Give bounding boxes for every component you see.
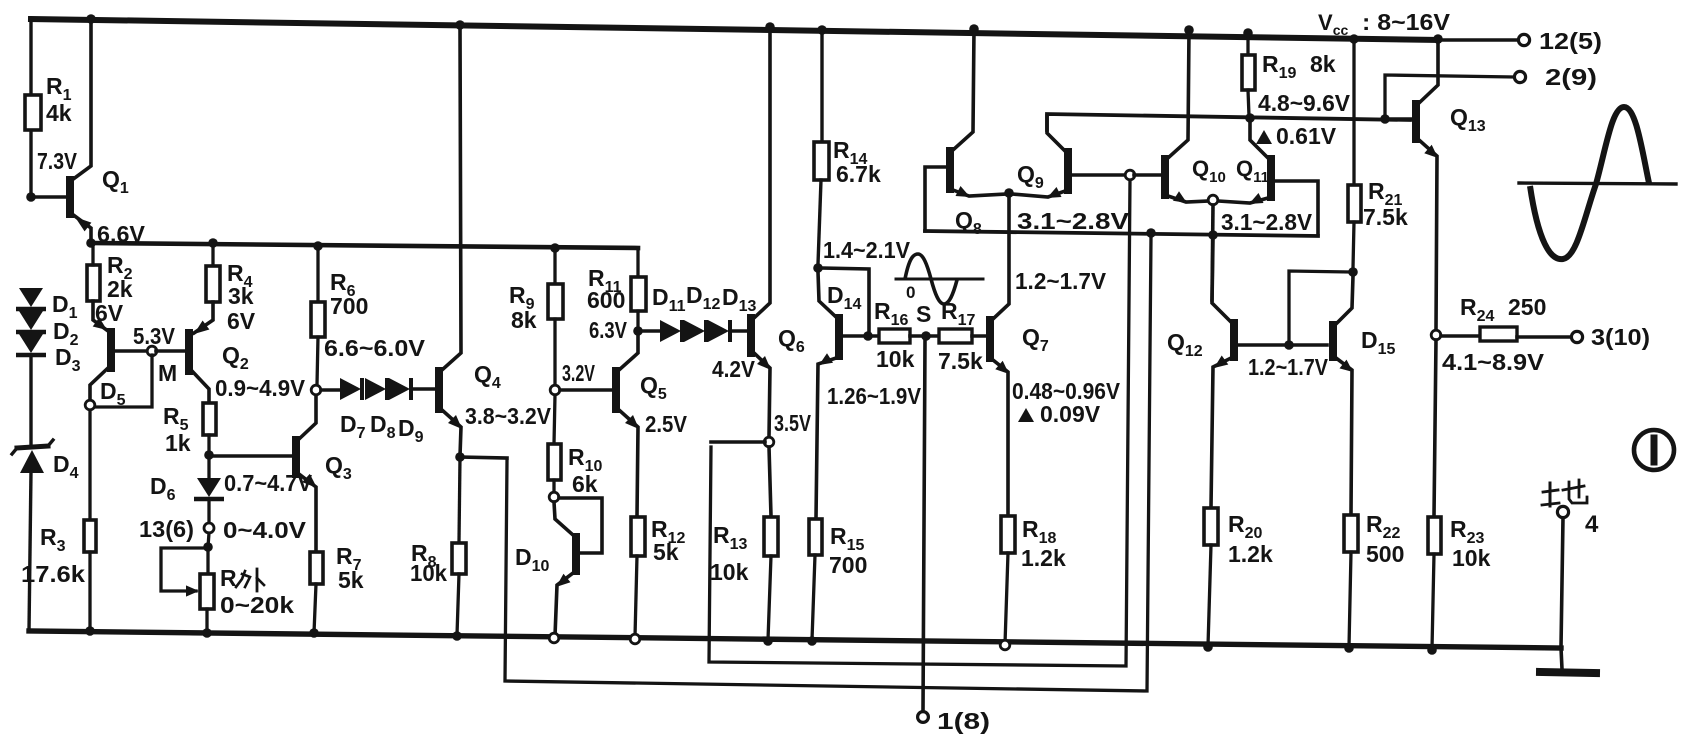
diode D8: [365, 378, 396, 442]
transistor Q9: [1012, 116, 1126, 198]
svg-text:6k: 6k: [572, 471, 598, 497]
node R9 top on 6.6V rail: [550, 243, 560, 253]
wire emitters to mirror bus / Q12 collector: [1212, 205, 1213, 300]
transistor Q5: [616, 335, 667, 516]
svg-text:3.1~2.8V: 3.1~2.8V: [1017, 208, 1130, 234]
wire 3.5V node to line A: [711, 442, 765, 447]
terminal 2(9): [1514, 64, 1597, 90]
wire mirror base bus (Q8 base to Q11 base): [925, 231, 1318, 236]
svg-text:0.09V: 0.09V: [1040, 401, 1101, 427]
node R19 bottom / Q11 collector on driver rail: [1245, 113, 1255, 123]
transistor Q12: [1167, 239, 1327, 507]
wire Q5 base: [560, 388, 612, 392]
wire R17 to Q7 base: [972, 334, 986, 338]
svg-text:1k: 1k: [165, 430, 191, 456]
node R5 bottom / Q3 base / D6: [204, 450, 214, 460]
node R10 bottom: [549, 492, 559, 502]
transistor Q11: [1218, 122, 1318, 233]
svg-text:2(9): 2(9): [1545, 64, 1597, 90]
svg-text:1.2k: 1.2k: [1228, 541, 1273, 567]
resistor R7: [310, 543, 364, 633]
node Q10 collector on Vcc rail: [1184, 25, 1194, 35]
svg-text:6V: 6V: [227, 308, 256, 334]
node Rext / ground rail: [202, 628, 212, 638]
terminal 13(6): [139, 516, 307, 543]
node R20 / ground rail: [1203, 642, 1213, 652]
transistor Q10: [1165, 30, 1226, 203]
node Q4 collector on top rail: [455, 20, 465, 30]
resistor R20: [1204, 508, 1273, 646]
svg-text:2k: 2k: [107, 276, 133, 302]
resistor R18: [1001, 516, 1066, 644]
wire pin13 node to Rext: [208, 533, 209, 547]
diode D3: [16, 334, 81, 375]
node 6.6V rail start: [86, 238, 96, 248]
svg-text:1(8): 1(8): [937, 708, 990, 734]
wire D3 to D4: [29, 355, 32, 447]
terminal 3(10): [1571, 324, 1650, 350]
resistor R24: [1441, 294, 1571, 341]
node mirror bus junction at Q12 column: [1208, 230, 1218, 240]
svg-text:8k: 8k: [511, 307, 537, 333]
resistor R3: [21, 409, 96, 631]
input sine symbol: [896, 254, 983, 304]
node output (Q13 emitter / R24): [1431, 330, 1441, 340]
node R14 top on Vcc rail: [817, 25, 827, 35]
wire base circle to Q10: [1134, 173, 1161, 177]
output sine waveform: [1519, 107, 1676, 259]
svg-text:7.5k: 7.5k: [1363, 204, 1408, 230]
node R15 / ground rail: [807, 636, 817, 646]
svg-text:4.2V: 4.2V: [712, 356, 756, 382]
node Rext top junction: [203, 542, 213, 552]
potentiometer Rext (external 0~20k): [200, 547, 294, 633]
resistor R16: [874, 298, 915, 372]
resistor R14: [814, 30, 881, 264]
wire bottom ground rail: [29, 631, 1561, 648]
transistor Q3: [296, 394, 352, 551]
node Q8 collector on Vcc rail: [969, 24, 979, 34]
svg-text:0~20k: 0~20k: [220, 592, 294, 618]
diode D12: [684, 282, 721, 342]
wire driver rail (Q9 collector to Q13 base): [1047, 114, 1410, 130]
node M (5.3V): [133, 323, 177, 386]
wire S to pin 1(8): [923, 340, 925, 711]
node R6 top on 6.6V rail: [313, 241, 323, 251]
svg-text:5.3V: 5.3V: [133, 323, 176, 349]
node pin2 drop on driver rail: [1380, 114, 1390, 124]
node S: [916, 301, 931, 341]
transistor Q6: [751, 27, 805, 437]
transistor Q7: [990, 197, 1049, 515]
node 3.5V (Q6 emitter): [764, 410, 811, 447]
svg-text:5k: 5k: [338, 567, 364, 593]
wire 6.3V node to D11: [642, 329, 660, 333]
wire base junction up to R21/D15 collector: [1289, 271, 1349, 341]
node top rail / Q1 collector: [86, 14, 96, 24]
resistor R12: [631, 516, 686, 637]
svg-text:1.2~1.7V: 1.2~1.7V: [1248, 354, 1329, 380]
node R4 top on 6.6V rail: [208, 238, 218, 248]
wire node to D7: [321, 388, 340, 392]
wire driver rail to pin 2(9): [1385, 75, 1513, 115]
terminal 1(8): [918, 708, 990, 734]
svg-text:4.1~8.9V: 4.1~8.9V: [1442, 349, 1545, 375]
svg-text:3.2V: 3.2V: [562, 360, 595, 386]
node R13 / ground rail: [763, 636, 773, 646]
diode D13: [708, 284, 757, 342]
svg-text:7.3V: 7.3V: [37, 148, 78, 174]
node Q4 emitter junction: [455, 452, 465, 462]
node D5 anode: [85, 400, 95, 410]
node mirror bus junction to line B: [1146, 228, 1156, 238]
resistor R1: [25, 73, 72, 130]
resistor R10: [548, 395, 603, 497]
svg-text:6.6V: 6.6V: [97, 221, 146, 247]
wire D4 to ground rail: [29, 471, 31, 631]
svg-text:4k: 4k: [46, 100, 72, 126]
svg-text:5k: 5k: [653, 539, 679, 565]
svg-text:10k: 10k: [710, 559, 749, 585]
transistor D5 (diode-connected, input pair left): [90, 301, 148, 401]
resistor R8: [410, 457, 466, 635]
resistor R9: [509, 248, 563, 385]
wire Q1 base: [31, 195, 66, 199]
node Q10/Q11 emitters junction: [1208, 195, 1218, 205]
node 3.2V (R9/R10/Q5 base): [550, 360, 595, 395]
node R12 / ground rail: [630, 634, 640, 644]
wire D5 loop: [95, 355, 152, 407]
wire D9 to Q4 base: [412, 387, 434, 391]
svg-text:1.26~1.9V: 1.26~1.9V: [827, 383, 922, 409]
transistor Q13: [1389, 43, 1486, 330]
svg-text:600: 600: [587, 287, 625, 313]
svg-text:10k: 10k: [410, 560, 447, 586]
node R22 / ground rail: [1344, 643, 1354, 653]
transistor Q8: [925, 29, 1006, 238]
wire 3.5V node to R13: [769, 447, 771, 516]
diode D2: [16, 311, 79, 349]
node R18 / ground rail: [1000, 640, 1010, 650]
circled 1 figure mark: [1634, 430, 1674, 470]
svg-text:1.2k: 1.2k: [1021, 545, 1066, 571]
svg-text:0.61V: 0.61V: [1276, 123, 1337, 149]
transistor D10 (diode-connected): [515, 498, 602, 636]
node Q9/Q10 base junction: [1125, 170, 1135, 180]
wire D13 to Q6 base: [731, 329, 746, 333]
label Rext subscript (wai): [236, 569, 264, 591]
svg-text:10k: 10k: [1452, 545, 1491, 571]
label 0.09V delta: [1018, 401, 1101, 427]
wire feedback line A (Q6 emitter net to Q9/Q10 bases): [709, 179, 1130, 666]
transistor D15 (diode-connected): [1333, 276, 1396, 514]
node R19 top on Vcc rail: [1243, 28, 1253, 38]
node D14 base junction: [863, 331, 873, 341]
resistor R23: [1428, 516, 1491, 649]
node R8 / ground rail: [452, 631, 462, 641]
wire M to Q2 base: [156, 349, 185, 353]
transistor D14 (diode-connected): [816, 268, 878, 518]
wire Vcc top rail: [31, 19, 1438, 40]
svg-text:0: 0: [906, 283, 915, 302]
resistor R5: [163, 403, 216, 456]
resistor R2: [87, 243, 133, 326]
svg-text:6.3V: 6.3V: [589, 317, 628, 343]
wire Q4 emitter to feedback B: [460, 457, 507, 458]
svg-text:M: M: [158, 360, 177, 386]
node R21 bottom / D15 collector: [1348, 267, 1358, 277]
zener diode D4: [12, 440, 79, 482]
label ground (CJK): [1542, 480, 1587, 506]
svg-text:700: 700: [829, 552, 867, 578]
ground symbol: [1540, 648, 1596, 673]
resistor R6: [311, 246, 368, 385]
svg-text:6.7k: 6.7k: [836, 161, 881, 187]
transistor Q1: [70, 19, 129, 243]
wire emitter node to Q7 collector: [1008, 197, 1010, 303]
svg-text:1.2~1.7V: 1.2~1.7V: [1015, 268, 1107, 294]
node R21 top on Vcc rail: [1349, 34, 1359, 44]
resistor R22: [1344, 511, 1404, 647]
node Q1 base junction: [26, 192, 36, 202]
node R14 bottom / D14 collector: [813, 263, 823, 273]
resistor R17: [938, 298, 983, 374]
diode D11: [652, 284, 686, 342]
svg-text:1.4~2.1V: 1.4~2.1V: [823, 237, 911, 263]
svg-text:3.1~2.8V: 3.1~2.8V: [1221, 209, 1313, 235]
resistor R11: [587, 248, 646, 327]
diode D9: [389, 378, 424, 446]
svg-text:10k: 10k: [876, 346, 915, 372]
resistor R15: [809, 519, 867, 640]
svg-text:3(10): 3(10): [1591, 324, 1650, 350]
wire 6.6V rail: [91, 243, 638, 248]
svg-text:2.5V: 2.5V: [645, 411, 688, 437]
potentiometer Rext wiper loop: [161, 548, 208, 597]
svg-text:6.6~6.0V: 6.6~6.0V: [324, 335, 426, 361]
node Q6 collector on top rail: [765, 22, 775, 32]
wire D6 to pin 13 node: [207, 500, 210, 523]
resistor R13: [710, 517, 778, 640]
svg-text:3k: 3k: [228, 283, 254, 309]
diode D7: [340, 378, 366, 442]
node 6.3V (R11/D11/Q5 collector): [589, 317, 643, 343]
svg-text:0~4.0V: 0~4.0V: [223, 517, 307, 543]
svg-text:3.5V: 3.5V: [774, 410, 812, 436]
terminal 4 (ground pin): [1557, 506, 1599, 538]
node Q13 collector on Vcc rail: [1433, 34, 1443, 44]
svg-text:7.5k: 7.5k: [938, 348, 983, 374]
node Q12/D15 base junction: [1284, 340, 1294, 350]
label 0.61V delta: [1256, 123, 1337, 149]
node Q8/Q9 emitters junction: [1004, 188, 1014, 198]
svg-text:700: 700: [330, 293, 368, 319]
resistor R4: [206, 243, 256, 334]
wire Vcc rail to pin 12(5): [1438, 38, 1517, 41]
svg-text:4: 4: [1585, 511, 1599, 538]
svg-text:12(5): 12(5): [1539, 28, 1602, 54]
wire left supply column (R1 branch): [29, 19, 32, 197]
node R7 / ground rail: [309, 628, 319, 638]
svg-text:: 8~16V: : 8~16V: [1362, 9, 1451, 35]
wire R16 to S: [910, 334, 939, 338]
svg-text:8k: 8k: [1310, 51, 1336, 77]
label Vcc supply: [1318, 9, 1451, 38]
svg-text:S: S: [916, 301, 931, 327]
wire pin4 to ground rail: [1561, 518, 1563, 647]
transistor Q2: [189, 302, 249, 402]
diode D6: [150, 455, 313, 504]
wire Q3 base: [209, 454, 292, 458]
svg-text:3.8~3.2V: 3.8~3.2V: [465, 403, 552, 429]
terminal 12(5): [1518, 28, 1602, 54]
diode D1: [16, 288, 78, 322]
node R23 / ground rail: [1427, 645, 1437, 655]
node R3 / ground rail: [85, 626, 95, 636]
node R2 top on 6.6V rail: [91, 243, 94, 265]
svg-text:0.9~4.9V: 0.9~4.9V: [215, 375, 306, 401]
wire output node to R23: [1434, 340, 1436, 516]
svg-text:250: 250: [1508, 294, 1546, 320]
resistor R19: [1242, 33, 1336, 116]
wire feedback line B (Q4 emitter net to mirror bus): [505, 237, 1151, 691]
node D10 emitter / ground rail: [549, 633, 559, 643]
node 0.9~4.9V (R6/D7/Q3): [311, 385, 321, 395]
svg-text:4.8~9.6V: 4.8~9.6V: [1258, 90, 1351, 116]
svg-text:17.6k: 17.6k: [21, 561, 85, 587]
svg-text:13(6): 13(6): [139, 516, 194, 542]
svg-text:500: 500: [1366, 541, 1404, 567]
transistor Q4: [439, 25, 501, 456]
resistor R21: [1348, 39, 1408, 268]
